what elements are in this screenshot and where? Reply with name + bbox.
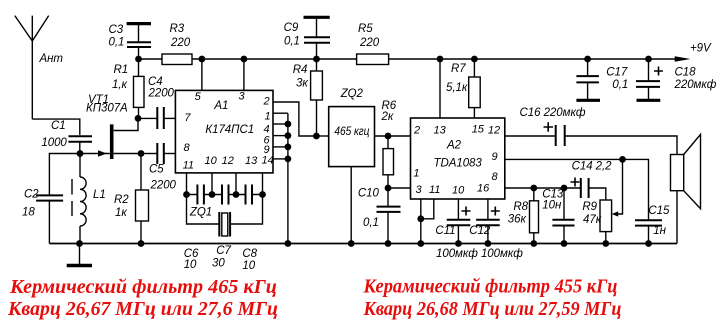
wire ZQ2 out	[375, 135, 411, 137]
transistor VT1 channel bar	[110, 124, 114, 159]
capacitor C2	[36, 195, 63, 200]
svg-text:R1: R1	[114, 64, 129, 76]
svg-text:Кермический фильтр 465 кГц: Кермический фильтр 465 кГц	[9, 276, 277, 298]
svg-text:11: 11	[183, 160, 194, 172]
inductor L1 core dashes	[71, 179, 73, 216]
wire pin3 to rail	[243, 59, 245, 90]
svg-text:C12: C12	[469, 225, 491, 237]
wire drain node to C4	[138, 117, 157, 119]
wire R6 bottom to C10 node	[387, 175, 389, 188]
capacitor C1	[68, 136, 92, 142]
svg-text:C15: C15	[648, 205, 670, 217]
svg-text:3: 3	[239, 91, 246, 103]
node pin3 rail junction	[417, 240, 424, 247]
node C13 top junction	[561, 185, 568, 192]
svg-text:18: 18	[22, 207, 35, 219]
wire R2 to rail	[140, 221, 142, 244]
node C17 rail junction	[584, 56, 591, 63]
wire C14 to R9	[589, 188, 606, 200]
plus sign C18	[654, 67, 663, 76]
svg-text:0,1: 0,1	[612, 79, 628, 91]
wire source to R2	[140, 154, 142, 191]
svg-text:Ант: Ант	[39, 53, 64, 65]
resistor R6	[383, 149, 394, 175]
node osc bus 13	[259, 191, 266, 198]
capacitor C17	[576, 59, 600, 100]
node pin6	[285, 132, 292, 139]
svg-text:C7: C7	[216, 245, 231, 257]
op-amp U1 box A1	[175, 90, 273, 172]
node C11 rail junction	[455, 240, 462, 247]
wire C13 down	[563, 188, 565, 219]
svg-text:465 кгц: 465 кгц	[334, 126, 369, 138]
wire C1 to gate node	[79, 142, 81, 154]
svg-text:R5: R5	[358, 23, 373, 35]
wire pin16 to C12	[487, 199, 489, 219]
resistor R2	[136, 190, 149, 221]
wire source node to C5	[141, 153, 157, 155]
svg-text:R4: R4	[293, 64, 308, 76]
svg-text:12: 12	[222, 155, 234, 167]
wire pin10 stub down	[211, 173, 213, 195]
speaker	[671, 134, 701, 243]
wire rail to R4	[316, 59, 318, 71]
wire pin12 stub down	[235, 173, 237, 195]
svg-text:3: 3	[416, 184, 423, 196]
svg-text:14: 14	[262, 155, 274, 167]
svg-text:9: 9	[492, 151, 498, 163]
wire C10 node to pin1 of A2	[388, 187, 411, 189]
wire ZQ2 bottom to rail	[350, 167, 352, 244]
power rail +9V	[139, 58, 677, 60]
svg-text:2: 2	[263, 96, 270, 108]
svg-text:1000: 1000	[41, 137, 67, 149]
capacitor C6	[197, 185, 204, 205]
svg-text:0,1: 0,1	[363, 217, 379, 229]
svg-text:2200: 2200	[148, 88, 175, 100]
svg-text:0,1: 0,1	[109, 37, 125, 49]
svg-text:C14 2,2: C14 2,2	[572, 161, 613, 173]
node C13 rail junction	[561, 240, 568, 247]
node osc bus 12	[233, 191, 240, 198]
svg-text:11: 11	[429, 184, 440, 196]
svg-text:Кварц 26,67 МГц или 27,6 МГц: Кварц 26,67 МГц или 27,6 МГц	[7, 298, 278, 320]
node pin5 rail	[199, 56, 206, 63]
wire node to ZQ2	[316, 135, 328, 137]
wire C12 to rail	[487, 225, 489, 243]
svg-text:220: 220	[170, 37, 191, 49]
wire oscillator bus segments	[187, 194, 263, 196]
wire gate node to L1	[79, 154, 81, 178]
wire pin5 to rail	[201, 59, 203, 90]
resistor R3	[162, 54, 192, 65]
capacitor C13	[552, 220, 574, 226]
capacitor C12	[476, 220, 500, 226]
wire L1 to rail	[79, 226, 81, 244]
wire pin13 to rail	[439, 59, 441, 118]
capacitor C9	[304, 17, 331, 59]
capacitor C5	[157, 143, 164, 164]
svg-text:Керамический фильтр 455 кГц: Керамический фильтр 455 кГц	[363, 276, 618, 298]
node drain junction	[135, 115, 142, 122]
svg-text:R8: R8	[513, 201, 528, 213]
svg-text:КП307А: КП307А	[86, 103, 128, 115]
svg-text:3к: 3к	[296, 78, 308, 90]
node R6 top junction	[385, 133, 392, 140]
wire R4 to ZQ2 node	[316, 100, 318, 136]
node pot wiper junction	[619, 156, 626, 163]
wire node to C15	[623, 159, 649, 220]
svg-text:2200: 2200	[150, 180, 177, 192]
svg-text:8: 8	[184, 142, 191, 154]
plus sign C14	[571, 178, 580, 187]
svg-text:2к: 2к	[381, 111, 394, 123]
wire pin11 stub down	[186, 173, 188, 195]
wire pin2 of A1 to ZQ2 node	[273, 102, 316, 136]
wire C11 to rail	[457, 225, 459, 243]
svg-text:10: 10	[184, 259, 197, 271]
ground symbol	[67, 244, 92, 266]
wire node to C10	[387, 188, 389, 207]
crystal ZQ1	[219, 212, 230, 237]
svg-text:5: 5	[195, 91, 202, 103]
transistor VT1 gate arrow	[98, 150, 107, 156]
node ZQ2 rail junction	[348, 240, 355, 247]
filter ZQ2 box	[329, 107, 375, 167]
capacitor C7	[222, 185, 229, 205]
node osc bus 11	[183, 191, 190, 198]
svg-text:ZQ1: ZQ1	[189, 207, 212, 219]
capacitor C18	[636, 59, 660, 100]
svg-text:+9V: +9V	[690, 43, 712, 55]
svg-text:C11: C11	[435, 225, 455, 237]
svg-text:A2: A2	[446, 140, 462, 152]
svg-text:1,к: 1,к	[112, 79, 127, 91]
svg-text:R9: R9	[582, 201, 597, 213]
wire pin14 stub	[273, 158, 288, 160]
wire C15 to rail	[648, 226, 650, 244]
wire antenna to C1	[32, 119, 80, 135]
ground rail	[49, 243, 677, 245]
svg-text:L1: L1	[93, 189, 106, 201]
plus sign C11	[462, 207, 471, 216]
capacitor C14	[581, 178, 589, 198]
wire VT1 source	[114, 153, 141, 155]
op-amp U2 box A2	[411, 118, 505, 199]
node pin14	[285, 156, 292, 163]
resistor R5	[357, 54, 389, 65]
svg-text:К174ПС1: К174ПС1	[205, 124, 254, 136]
svg-text:16: 16	[477, 183, 490, 195]
svg-text:47к: 47к	[583, 214, 602, 226]
node R7 rail	[471, 56, 478, 63]
wire pin10 to C11	[457, 199, 459, 219]
node source junction	[138, 150, 145, 157]
svg-text:10: 10	[242, 260, 255, 272]
node C10 rail junction	[385, 240, 392, 247]
svg-text:C5: C5	[149, 164, 164, 176]
svg-text:C4: C4	[148, 76, 163, 88]
svg-text:R2: R2	[114, 194, 129, 206]
svg-text:C8: C8	[242, 248, 257, 260]
antenna	[15, 16, 49, 120]
node pin4	[285, 121, 292, 128]
svg-text:C9: C9	[284, 22, 299, 34]
wire A1 right bus	[287, 113, 289, 243]
wire VT1 drain	[114, 118, 138, 130]
wire pin13 stub down	[262, 173, 264, 195]
node pin9	[285, 144, 292, 151]
svg-text:C1: C1	[51, 120, 66, 132]
node L1 ground junction	[76, 240, 83, 247]
node C18 rail junction	[645, 56, 652, 63]
wire pin3 of A2 to rail	[420, 199, 422, 244]
wire C13 to rail	[563, 226, 565, 244]
wire C10 to rail	[387, 212, 389, 244]
wire pin1 of A1 to bus	[273, 112, 288, 114]
svg-text:C17: C17	[606, 67, 628, 79]
node R2 rail junction	[138, 240, 145, 247]
node ZQ2 input junction	[313, 133, 320, 140]
wire R7 to pin15	[473, 108, 475, 118]
node gate junction	[77, 150, 84, 157]
node C3 rail junction	[135, 56, 142, 63]
svg-text:C2: C2	[24, 189, 39, 201]
svg-text:36к: 36к	[508, 214, 527, 226]
plus sign C12	[491, 207, 500, 216]
pot R9	[600, 200, 612, 232]
node R9 rail junction	[602, 240, 609, 247]
svg-text:ZQ2: ZQ2	[340, 88, 364, 100]
plus sign C16	[544, 122, 554, 131]
svg-text:7: 7	[184, 112, 191, 124]
wire R1 to drain node	[138, 108, 140, 119]
svg-text:30: 30	[212, 258, 225, 270]
resistor R7	[469, 77, 481, 108]
svg-text:8: 8	[492, 171, 499, 183]
node R8 rail junction	[530, 240, 537, 247]
svg-text:100мкф 100мкф: 100мкф 100мкф	[436, 248, 523, 260]
wire pin6 stub	[273, 135, 288, 137]
node pin11 junction	[417, 215, 424, 222]
svg-text:R7: R7	[451, 63, 466, 75]
node R8 top junction	[530, 185, 537, 192]
svg-text:1: 1	[265, 111, 271, 123]
svg-text:C10: C10	[358, 188, 380, 200]
+9V arrow	[675, 56, 691, 62]
svg-text:1н: 1н	[653, 225, 666, 237]
svg-text:1к: 1к	[115, 207, 127, 219]
capacitor C11	[447, 220, 471, 226]
capacitor C3	[127, 24, 151, 59]
wire pin9 stub	[273, 146, 288, 148]
wire ZQ1 loop	[187, 195, 263, 225]
svg-text:220: 220	[359, 37, 380, 49]
node C10 junction	[385, 185, 392, 192]
svg-text:TDA1083: TDA1083	[434, 158, 483, 170]
pot R9 wiper arrow	[612, 211, 619, 216]
svg-text:5,1к: 5,1к	[446, 82, 468, 94]
node pin3 rail	[241, 56, 248, 63]
svg-text:13: 13	[434, 125, 447, 137]
capacitor C8	[246, 185, 253, 205]
wire pin8 row	[505, 187, 581, 189]
svg-text:220мкф: 220мкф	[674, 79, 717, 91]
svg-text:R3: R3	[170, 23, 185, 35]
wire C4 to pin7	[164, 117, 176, 119]
svg-text:C18: C18	[675, 67, 697, 79]
svg-text:0,1: 0,1	[284, 36, 300, 48]
svg-text:2: 2	[413, 125, 420, 137]
wire C16 to speaker	[565, 136, 677, 155]
wire R9 to rail	[605, 232, 607, 244]
svg-text:C3: C3	[109, 24, 124, 36]
capacitor C16	[556, 125, 565, 146]
node osc bus 10	[209, 191, 216, 198]
svg-text:A1: A1	[213, 100, 228, 112]
resistor R8	[530, 201, 539, 233]
svg-text:10: 10	[452, 185, 465, 197]
capacitor C15	[635, 220, 662, 225]
inductor L1	[80, 177, 86, 226]
svg-text:1: 1	[413, 168, 419, 180]
wire gate with arrow	[80, 153, 110, 155]
node C15 rail junction	[645, 240, 652, 247]
wire R8 to rail	[533, 233, 535, 244]
wire R6 top	[387, 136, 389, 149]
node C9 rail junction	[313, 56, 320, 63]
resistor R1	[134, 76, 145, 107]
wire C5 to pin8	[164, 153, 176, 155]
svg-text:15: 15	[472, 124, 485, 136]
wire pin9 to pot node	[505, 158, 623, 160]
wire pin12 to C16	[505, 135, 556, 137]
node C12 rail junction	[485, 240, 492, 247]
wire pin4 stub	[273, 123, 288, 125]
wire node to R8	[533, 188, 535, 201]
svg-text:10н: 10н	[542, 200, 562, 212]
node pin13 rail	[437, 56, 444, 63]
wire pin11 of A2 joins pin3	[421, 199, 434, 219]
wire rail to R7	[473, 59, 475, 77]
svg-text:13: 13	[245, 155, 258, 167]
svg-text:12: 12	[488, 125, 500, 137]
wire gate node left	[49, 154, 80, 196]
capacitor C4	[157, 107, 164, 129]
resistor R4	[311, 71, 323, 100]
svg-text:C16 220мкф: C16 220мкф	[520, 107, 586, 119]
capacitor C10	[377, 207, 401, 212]
wire rail to R1	[138, 59, 140, 76]
svg-text:Кварц 26,68 МГц или 27,59 МГц: Кварц 26,68 МГц или 27,59 МГц	[363, 298, 622, 320]
svg-text:10: 10	[205, 155, 218, 167]
node bus rail junction	[285, 240, 292, 247]
wire wiper down	[616, 159, 623, 214]
wire C2 to rail	[48, 201, 50, 244]
